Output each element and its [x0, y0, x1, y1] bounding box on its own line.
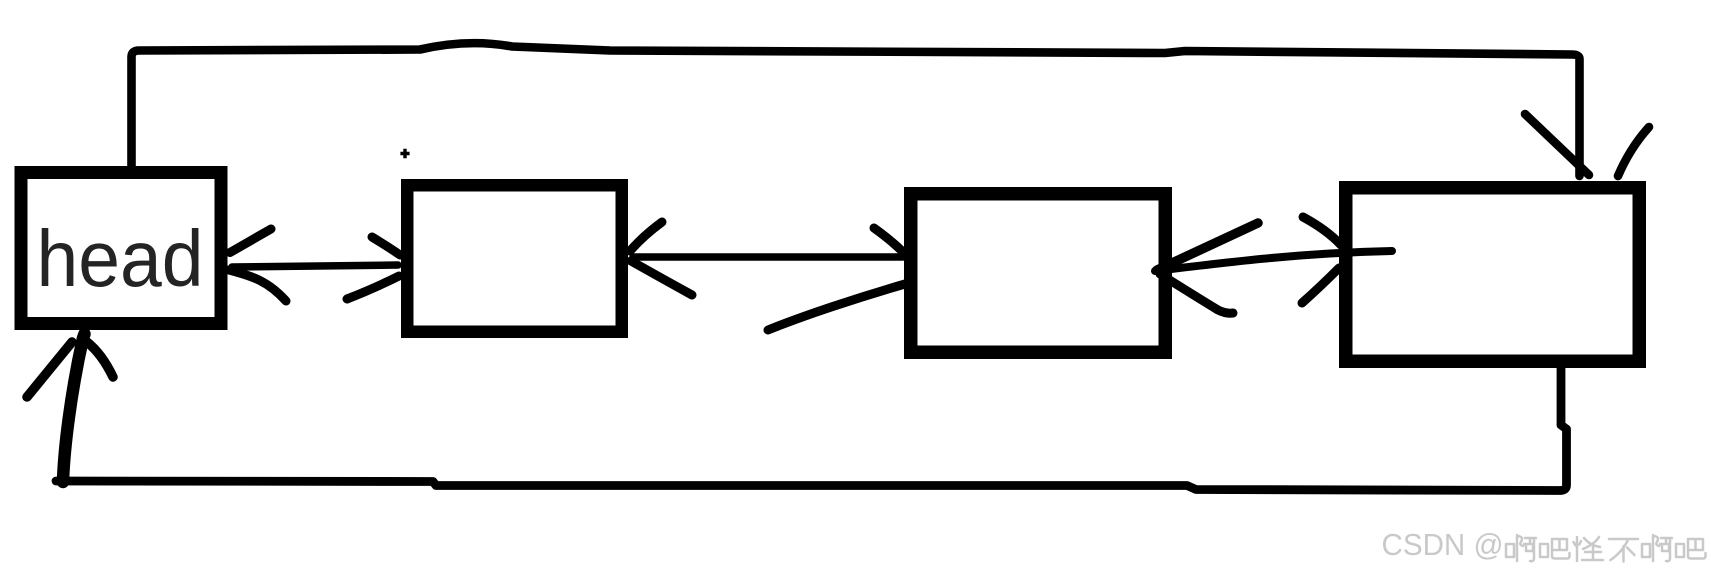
svg-text:head: head	[37, 214, 204, 303]
svg-text:CSDN @: CSDN @	[1382, 528, 1504, 562]
